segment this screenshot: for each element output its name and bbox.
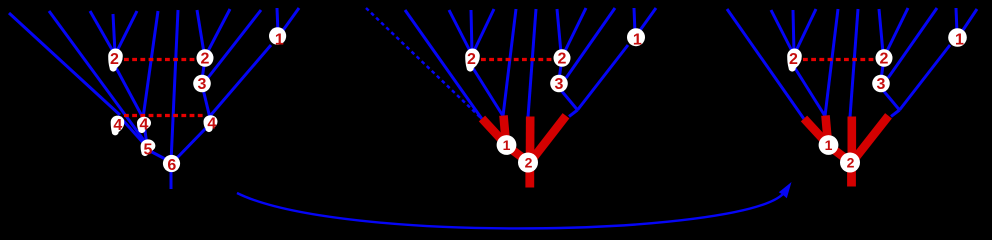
tree3 leaf line l11 [956,8,957,33]
tree1 trunk below node6 [170,170,173,189]
tree1 node 2a halo [108,48,123,71]
tree2 red trunk [525,163,534,188]
tree3 red trunk [847,163,856,187]
tree1 node 3 halo [193,75,211,93]
svg-text:2: 2 [880,51,889,68]
tree3 leaf line l5 [795,9,816,53]
tree1 leaf line l5 [116,11,137,53]
svg-text:1: 1 [955,32,964,49]
svg-text:3: 3 [198,76,207,93]
tree1 node 1 halo [269,27,286,45]
tree2 node 2b halo [554,49,571,67]
svg-text:4: 4 [113,117,122,134]
tree3 merged node 1 halo [819,135,839,155]
tree1 node 6 halo [163,155,180,172]
tree1 edge node2a to node4b [114,64,143,118]
tree2 edge node3 down-right [560,89,578,110]
tree3 red branch a [804,119,828,145]
tree1 edge node4b to node5 [144,124,147,145]
tree1 node 4c halo [204,115,218,132]
tree1 edge node2b to node3 [203,62,205,76]
tree1 edge node5 to node6 [150,151,169,161]
tree1 red dashed tie 4-4-4 [124,114,203,117]
tree3 leaf line l6 [825,9,838,116]
svg-text:2: 2 [789,51,798,68]
tree3 leaf line l4 [793,10,794,53]
tree2 leaf line l5 [473,9,494,53]
tree3 node 3 halo [872,75,890,93]
tree3 node 1 halo [948,28,967,47]
tree1 leaf line l11 [277,8,278,33]
tree1 node 4a halo [111,116,125,136]
tree1 edge node3 to node4c [203,89,210,116]
tree2 leaf line l12 [640,8,657,31]
tree1 leaf line l2 (to node 5) [49,11,148,146]
svg-text:2: 2 [201,51,210,68]
tree3 red branch b [826,116,829,145]
tree1 leaf line l10 (to node 3) [207,10,261,79]
svg-text:6: 6 [167,157,176,174]
svg-text:2: 2 [847,155,855,171]
tree3 leaf line l12 [963,9,977,30]
tree2 leaf line l10 (to node 3) [566,8,615,78]
tree3 leaf line l2 [727,9,804,119]
arrow head [779,182,792,198]
svg-text:4: 4 [207,116,216,133]
tree3 edge node2a down [793,65,825,116]
tree3 node 2b halo [876,49,893,67]
tree1 edge node1 to node4c [210,45,271,116]
svg-text:1: 1 [633,32,642,49]
tree3 leaf line l7 upper [850,9,858,117]
svg-text:1: 1 [825,137,833,153]
tree3 stub above red branch d [891,110,900,117]
svg-text:5: 5 [144,142,153,159]
tree2 red edge node1 to node2 [507,146,527,161]
tree3 red branch d [853,116,889,161]
svg-text:2: 2 [525,155,533,171]
tree1 leaf line l3 [90,11,114,53]
tree2 red branch b [504,116,507,145]
tree1 leaf line l4 [113,14,115,53]
tree3 edge node3 down-right [882,89,900,110]
tree3 red dashed tie 2-2 [803,58,875,61]
tree1 leaf line l7 (to node 6) [171,10,178,162]
svg-text:4: 4 [140,117,149,134]
arrow curve tree2 to tree3 [237,193,783,228]
tree3 leaf line l9 [886,8,908,53]
svg-text:2: 2 [558,51,567,68]
tree2 leaf line l2 [405,10,482,119]
tree3 node 2a halo [787,49,802,72]
tree2 leaf line l4 [471,10,472,53]
tree2 red dashed tie 2-2 [481,58,553,61]
tree1 leaf line l12 [283,8,300,31]
tree2 node 1 halo [627,28,645,46]
tree2 edge node1 down-left [578,45,629,110]
tree1 edge node4a to node5 [120,117,146,146]
tree3 red edge node1 to node2 [829,146,849,161]
tree1 leaf line l8 [197,10,204,53]
tree2 leaf line l6 [503,9,516,116]
tree2 dashed removed lineage [366,8,481,118]
svg-text:2: 2 [110,51,119,68]
tree1 red dashed tie 2-2 [124,58,196,61]
svg-text:2: 2 [467,51,476,68]
tree1 node 2b halo [197,49,214,67]
svg-text:1: 1 [275,32,284,49]
tree2 leaf line l3 [449,10,471,53]
tree3 leaf line l10 (to node 3) [888,8,937,78]
svg-text:3: 3 [877,76,886,93]
tree2 leaf line l7 upper [528,9,536,117]
tree2 edge node2b to node3 [560,62,562,76]
tree2 node 3 halo [550,75,568,93]
tree2 red branch a [482,119,506,145]
svg-text:3: 3 [555,76,564,93]
svg-text:1: 1 [503,137,511,153]
tree3 edge node2b to node3 [882,62,884,76]
tree3 leaf line l8 [879,9,883,53]
tree1 leaf line l9 [207,9,230,53]
tree1 leaf line l1 [9,13,120,115]
tree2 red branch d [531,116,566,161]
tree2 node 2a halo [465,49,480,72]
tree2 merged node 1 halo [497,135,517,155]
tree2 red branch c [526,117,535,162]
tree1 node 4b halo [137,117,151,133]
tree2 merged node 2 halo [518,153,538,173]
tree2 edge node2a down [471,65,503,116]
tree2 leaf line l11 [634,8,635,33]
tree2 leaf line l9 [564,8,586,53]
tree2 leaf line l8 [557,9,561,53]
tree2 stub above red branch d [569,110,578,117]
tree3 red branch c [847,117,856,162]
tree1 leaf line l6 [143,11,158,118]
tree1 node 5 halo [141,139,156,156]
tree1 edge node4c to node6 [174,126,208,161]
tree3 edge node1 down-left [900,45,951,110]
tree3 leaf line l3 [771,10,793,53]
tree3 merged node 2 halo [840,153,860,173]
